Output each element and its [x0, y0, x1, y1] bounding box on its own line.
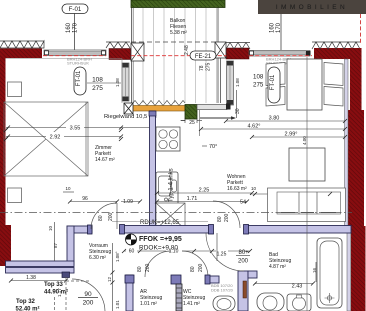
- window W2: [249, 51, 311, 57]
- green block: [185, 105, 197, 120]
- svg-text:FFOK =+9,95: FFOK =+9,95: [139, 236, 182, 243]
- svg-text:3.80: 3.80: [269, 116, 280, 122]
- svg-text:275: 275: [253, 82, 264, 89]
- svg-text:10: 10: [251, 186, 257, 191]
- svg-text:54: 54: [240, 200, 246, 206]
- corridor dim 60 / 1.10 / 1.25: [124, 250, 250, 252]
- svg-text:STURHSUK: STURHSUK: [67, 61, 89, 66]
- svg-text:1.09: 1.09: [123, 199, 133, 205]
- svg-text:6.30 m²: 6.30 m²: [89, 255, 106, 261]
- svg-text:10: 10: [48, 225, 53, 231]
- svg-text:160: 160: [270, 22, 276, 33]
- balcony dashed line: [131, 41, 218, 43]
- black corner at riegelwand left: [124, 103, 133, 114]
- svg-text:1.08: 1.08: [235, 78, 240, 87]
- Bad left wall: [238, 271, 257, 311]
- svg-text:44.90 m²: 44.90 m²: [44, 289, 68, 296]
- svg-text:1.10: 1.10: [169, 249, 179, 255]
- svg-text:12: 12: [107, 276, 112, 282]
- insulation zigzag over block: [106, 42, 130, 48]
- svg-text:2.92: 2.92: [50, 135, 61, 141]
- WC right wall stub W_H: [205, 275, 219, 284]
- dim ticks: [4, 119, 347, 286]
- 12 rotated + 1.01 rotated dims: [112, 243, 114, 311]
- dim 2.99: [252, 136, 345, 138]
- svg-text:FE-21: FE-21: [195, 54, 212, 60]
- svg-text:170: 170: [73, 22, 79, 33]
- svg-text:87: 87: [53, 242, 58, 248]
- stove: [156, 127, 180, 151]
- svg-text:FT-01: FT-01: [76, 70, 82, 86]
- toilet WC: [213, 296, 235, 311]
- svg-text:78: 78: [199, 65, 205, 71]
- svg-text:275: 275: [92, 85, 103, 92]
- sofa: [268, 188, 346, 222]
- svg-text:200: 200: [238, 259, 249, 265]
- axis line vertical: [306, 57, 308, 311]
- svg-text:80: 80: [217, 216, 223, 222]
- kitchen wall vertical: [150, 111, 156, 226]
- dim 2.25: [157, 192, 252, 194]
- top wall red right-mid block: [226, 48, 249, 59]
- middle stub W_G + WC west wall: [171, 275, 182, 311]
- svg-text:IMMOBILIEN: IMMOBILIEN: [276, 4, 348, 11]
- balcony railing green strip: [131, 0, 225, 8]
- svg-text:F-01: F-01: [69, 6, 82, 13]
- party wall W_C double: [6, 261, 75, 273]
- dim 2.92: [6, 136, 121, 138]
- svg-text:1.38: 1.38: [26, 275, 36, 281]
- top-left exterior wall: [0, 49, 42, 59]
- WC door arc: [182, 251, 208, 277]
- insulation zigzag top-left: [0, 41, 44, 48]
- svg-text:1.08: 1.08: [115, 78, 120, 87]
- svg-text:2.43: 2.43: [292, 284, 303, 290]
- IMMOBILIEN banner: [258, 0, 366, 14]
- bidet: [257, 293, 284, 311]
- balcony deck: [133, 8, 217, 103]
- right wall inner liner: [345, 59, 349, 226]
- insulation zigzag over right block: [226, 43, 250, 50]
- fridge X-square: [156, 203, 185, 229]
- dim 3.55: [6, 127, 150, 129]
- washbasin: [287, 294, 311, 311]
- svg-text:52.40 m²: 52.40 m²: [16, 306, 40, 311]
- dim 2.43: [255, 283, 313, 285]
- svg-text:4.87 m²: 4.87 m²: [269, 264, 286, 270]
- svg-text:108: 108: [92, 77, 103, 84]
- svg-text:Top 33: Top 33: [44, 282, 64, 288]
- svg-text:25: 25: [189, 120, 195, 126]
- bed mattress: [287, 59, 322, 110]
- window W1: [44, 50, 106, 56]
- red wall block mid-left: [109, 49, 131, 60]
- svg-text:200: 200: [83, 300, 94, 307]
- Zimmer door arc D1: [91, 203, 117, 229]
- svg-text:2.48: 2.48: [184, 45, 190, 55]
- W_B vertical wall left: [67, 226, 74, 265]
- insulation zigzag above riegelwand: [131, 101, 185, 106]
- door Wohnen arc: [213, 201, 240, 228]
- dim 3.80: [226, 120, 345, 122]
- svg-text:30: 30: [235, 108, 241, 114]
- FT-01 stadium right: [268, 67, 280, 103]
- svg-text:200: 200: [224, 213, 230, 222]
- svg-text:200: 200: [198, 263, 204, 272]
- dim 1.71 / 54: [157, 201, 247, 203]
- dim 96: [70, 201, 117, 203]
- svg-text:80: 80: [98, 215, 104, 221]
- svg-text:80+: 80+: [239, 250, 250, 256]
- main corridor wall under kitchen W_D: [120, 225, 214, 235]
- left exterior red wall: [0, 58, 6, 225]
- svg-text:DDB 107/20: DDB 107/20: [211, 288, 234, 293]
- svg-text:80: 80: [190, 266, 196, 272]
- level marker diamond: [126, 234, 137, 245]
- kitchen sink: [156, 172, 178, 205]
- bathtub: [317, 238, 342, 308]
- svg-text:160: 160: [66, 22, 72, 33]
- svg-text:170: 170: [276, 22, 282, 33]
- svg-text:2.25: 2.25: [199, 188, 210, 194]
- svg-text:200: 200: [108, 212, 114, 221]
- svg-text:1.08°: 1.08°: [115, 251, 120, 262]
- entry door leaf: [62, 272, 70, 278]
- svg-text:5.38 m²: 5.38 m²: [170, 30, 187, 36]
- entry door arc: [72, 279, 105, 311]
- AR wall W_F: [125, 275, 134, 311]
- svg-text:1.25: 1.25: [217, 252, 227, 258]
- Zimmer bottom wall W_A: [67, 225, 92, 234]
- right exterior red wall: [350, 48, 362, 112]
- red FE dashed line horizontal: [43, 55, 106, 57]
- insulation zigzag top-right: [312, 42, 360, 49]
- svg-text:4.62°: 4.62°: [248, 124, 261, 130]
- svg-text:1.01 m²: 1.01 m²: [140, 301, 157, 307]
- dim 4.62: [201, 128, 345, 130]
- balcony door left (Zimmer): [122, 63, 129, 101]
- svg-text:3.55: 3.55: [70, 126, 81, 132]
- F-01 oval: [62, 4, 88, 14]
- dim 2.27 sofa: [250, 193, 345, 195]
- svg-text:96: 96: [82, 196, 88, 202]
- FT-01 stadium left: [74, 67, 86, 95]
- balcony door right (Wohnen): [227, 61, 234, 105]
- svg-text:200: 200: [145, 263, 151, 272]
- svg-text:80: 80: [137, 266, 143, 272]
- small square furniture top: [8, 82, 22, 97]
- bed pillows right: [324, 63, 343, 86]
- small square furniture bottom: [8, 188, 22, 203]
- window label F-01 line: [74, 13, 76, 50]
- Zimmer room top edge line: [6, 58, 123, 60]
- top-right red wall: [314, 48, 362, 59]
- svg-text:60: 60: [129, 249, 135, 255]
- svg-text:108: 108: [253, 74, 264, 81]
- svg-text:70°: 70°: [209, 144, 217, 150]
- AR door arc: [145, 251, 171, 277]
- FE-21 oval: [190, 51, 216, 60]
- corner X-box right: [215, 42, 226, 58]
- bed pillows left: [266, 63, 285, 86]
- svg-text:FT-01: FT-01: [270, 74, 276, 90]
- dim 1.38: [11, 280, 66, 282]
- balcony boundary lines: [131, 0, 133, 103]
- window sill right of green: [197, 104, 231, 110]
- svg-text:2.99°: 2.99°: [285, 132, 298, 138]
- axis line horizontal dash-dot: [0, 212, 352, 214]
- svg-text:1.01: 1.01: [115, 300, 120, 309]
- corner X-box left: [131, 43, 144, 61]
- svg-text:90: 90: [84, 291, 92, 298]
- svg-text:10: 10: [65, 186, 71, 191]
- svg-text:1.71: 1.71: [187, 196, 198, 202]
- svg-text:275: 275: [206, 62, 212, 71]
- svg-text:RDUK=+12,65: RDUK=+12,65: [140, 220, 180, 226]
- svg-text:1.41 m²: 1.41 m²: [183, 301, 200, 307]
- window label line right: [280, 14, 282, 50]
- svg-text:4.00: 4.00: [302, 136, 307, 145]
- red FE dashed vertical right: [360, 14, 362, 43]
- svg-text:Typ 1-4 links: Typ 1-4 links: [169, 168, 175, 202]
- wardrobe X left: [4, 102, 88, 176]
- svg-text:14.67 m²: 14.67 m²: [95, 157, 115, 163]
- svg-text:16.63 m²: 16.63 m²: [227, 186, 247, 192]
- dining table: [289, 148, 325, 181]
- Bad/Wohnen wall W_I: [244, 225, 352, 235]
- svg-text:Top 32: Top 32: [16, 299, 36, 305]
- riegelwand orange wall: [125, 106, 185, 112]
- Bad door arc: [206, 233, 244, 271]
